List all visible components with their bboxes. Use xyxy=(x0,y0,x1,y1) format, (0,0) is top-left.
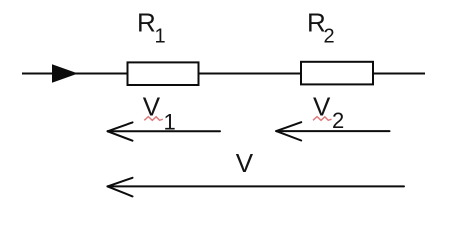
current arrow (filled triangle on wire) xyxy=(52,64,78,83)
resistor R2 xyxy=(301,62,373,85)
label V2 (with spellcheck squiggle) xyxy=(313,92,344,133)
voltage arrow V (total) xyxy=(108,178,405,197)
voltage arrow V2 xyxy=(276,122,389,140)
wire right segment xyxy=(373,73,425,75)
svg-text:V: V xyxy=(236,148,254,178)
svg-text:2: 2 xyxy=(324,26,335,48)
svg-text:1: 1 xyxy=(164,109,176,134)
label V1 (with spellcheck squiggle) xyxy=(143,92,176,135)
voltage arrow V1 xyxy=(108,122,220,140)
wire middle segment xyxy=(199,73,302,75)
resistor R1 xyxy=(128,62,199,85)
label R1 xyxy=(137,7,166,47)
svg-text:V: V xyxy=(143,92,161,122)
svg-text:2: 2 xyxy=(332,108,344,133)
label R2 xyxy=(307,7,335,47)
wire left segment xyxy=(22,73,128,75)
svg-text:R: R xyxy=(137,7,156,37)
svg-text:1: 1 xyxy=(155,26,166,48)
